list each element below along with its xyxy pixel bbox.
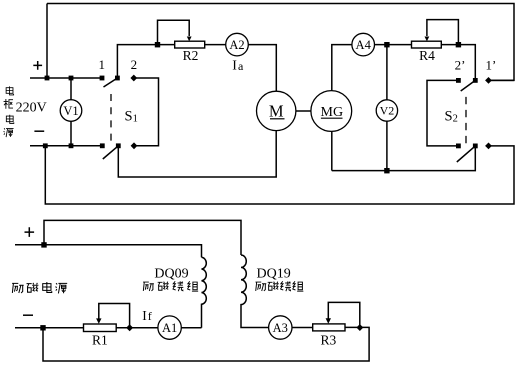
svg-text:A2: A2: [229, 38, 244, 52]
svg-text:V1: V1: [63, 104, 78, 118]
svg-text:A4: A4: [356, 38, 372, 52]
svg-text:A1: A1: [162, 321, 177, 335]
svg-text:V2: V2: [380, 104, 395, 118]
svg-text:A3: A3: [273, 321, 288, 335]
svg-text:MG: MG: [321, 105, 344, 120]
svg-text:S1: S1: [125, 109, 138, 125]
svg-text:R3: R3: [321, 332, 337, 347]
svg-text:1’: 1’: [485, 58, 496, 73]
svg-text:R4: R4: [419, 48, 435, 63]
svg-text:220V: 220V: [16, 101, 47, 116]
svg-text:DQ19: DQ19: [256, 267, 290, 282]
svg-text:R2: R2: [183, 48, 199, 63]
svg-text:S2: S2: [445, 108, 458, 124]
svg-text:DQ09: DQ09: [154, 267, 188, 282]
svg-text:M: M: [269, 102, 284, 121]
svg-text:Ia: Ia: [232, 59, 244, 74]
svg-text:1: 1: [99, 57, 106, 72]
svg-text:2: 2: [131, 57, 138, 72]
svg-text:If: If: [142, 308, 152, 323]
svg-text:2’: 2’: [455, 58, 466, 73]
svg-text:R1: R1: [92, 332, 108, 347]
